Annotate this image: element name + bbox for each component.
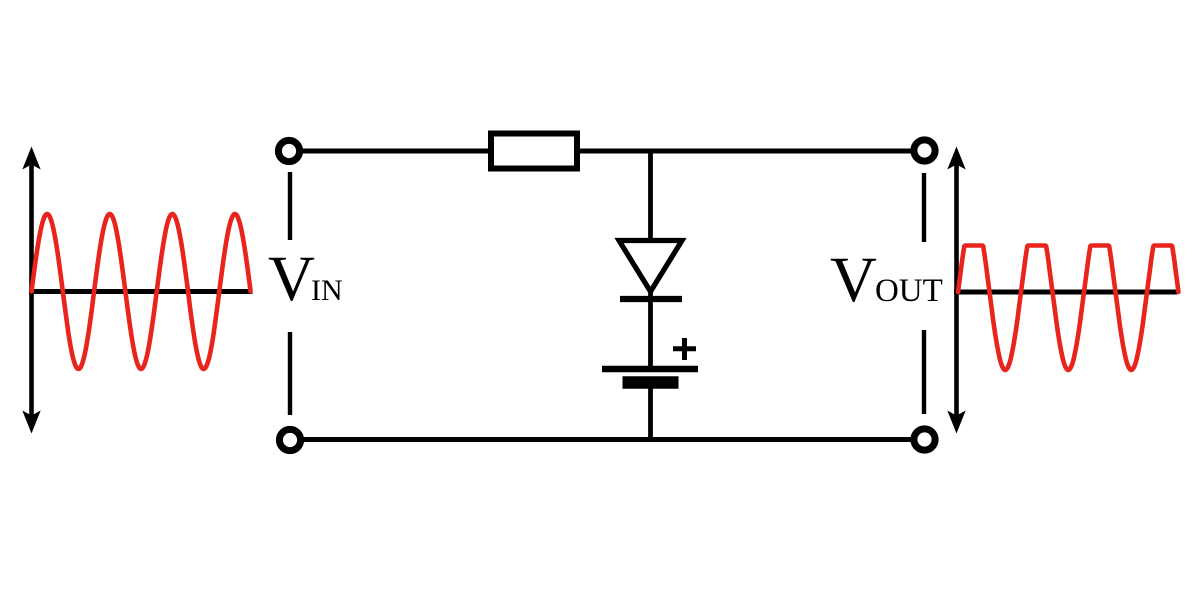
wire: top rail left segment (301, 149, 490, 154)
wire: battery to bottom rail (648, 388, 653, 442)
terminal: output bottom (914, 429, 935, 450)
terminal: input top (278, 140, 299, 161)
diode D1 (619, 241, 682, 300)
input baseline (29, 289, 253, 294)
resistor R1 (491, 134, 577, 169)
output baseline (954, 290, 1177, 295)
port Vout dashed indicator lower (922, 330, 926, 414)
terminal: input bottom (279, 429, 300, 450)
wire: diode to battery (648, 292, 653, 367)
label Vout (830, 243, 943, 318)
wire: top rail right segment (578, 149, 912, 154)
output clipped wave (Vout) (958, 246, 1179, 371)
node: junction to shunt branch (648, 151, 653, 242)
input axis arrowhead bottom (22, 411, 40, 434)
battery B1 negative plate (623, 376, 679, 389)
input axis arrow (29, 164, 34, 418)
port Vout dashed indicator upper (922, 173, 926, 242)
port Vin dashed indicator upper (288, 172, 292, 240)
input sine wave (Vin) (32, 214, 251, 369)
terminal: output top (914, 140, 935, 161)
output axis arrow (954, 164, 959, 418)
battery polarity + label (673, 338, 696, 360)
output axis arrowhead top (947, 147, 965, 170)
port Vin dashed indicator lower (288, 332, 292, 415)
battery B1 positive plate (602, 366, 698, 372)
input axis arrowhead top (22, 147, 40, 170)
output axis arrowhead bottom (947, 411, 965, 434)
label Vin (268, 242, 343, 317)
wire: bottom rail (303, 437, 911, 442)
